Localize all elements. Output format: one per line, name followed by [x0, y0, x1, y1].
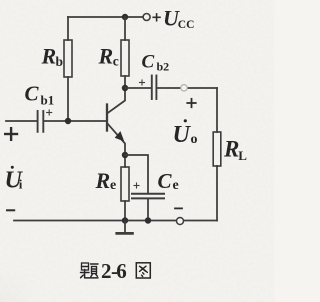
capacitor Cb2 left plate: [151, 76, 153, 100]
transistor Q emitter arrowhead: [115, 131, 125, 141]
svg-text:R: R: [41, 44, 57, 69]
wire Rc bottom to collector node: [124, 76, 126, 88]
capacitor Ce top plate: [132, 193, 164, 195]
label Cb1: [25, 81, 55, 107]
wire Ce bottom to bottom rail: [147, 198, 149, 220]
polarity plus of Cb2: [140, 80, 145, 85]
svg-text:L: L: [238, 148, 247, 163]
wire bottom rail: [14, 220, 217, 222]
svg-text:C: C: [158, 169, 173, 193]
wire Rb branch top: [67, 17, 69, 40]
svg-text:o: o: [191, 132, 198, 147]
capacitor Cb2 right plate: [155, 76, 157, 100]
wire input terminal to Cb1 left plate: [6, 120, 37, 122]
svg-text:C: C: [142, 52, 155, 73]
node junction dot ground node: [122, 217, 128, 223]
resistor Rc body: [121, 40, 129, 76]
wire emitter node to Re: [124, 155, 126, 167]
capacitor Cb1 right plate: [42, 111, 44, 132]
caption hanzi tu (图): [136, 263, 150, 278]
label RL: [223, 137, 247, 164]
wire Rc branch top: [124, 17, 126, 40]
resistor RL body: [213, 132, 221, 166]
output minus sign: [175, 207, 182, 209]
transistor Q base bar: [106, 105, 108, 131]
wire collector to Cb2: [125, 87, 151, 89]
input minus sign: [7, 209, 14, 211]
supply plus sign: [153, 14, 160, 21]
label Ce: [158, 169, 179, 193]
terminal output bottom open circle: [177, 218, 184, 225]
caption hanzi ti (题): [81, 263, 99, 278]
wire Cb2 to right rail corner: [157, 87, 217, 89]
resistor Re body: [121, 167, 129, 201]
wire Rb bottom to base node: [67, 77, 69, 121]
node junction dot collector node: [122, 85, 128, 91]
label Rb: [41, 44, 64, 70]
svg-text:C: C: [25, 81, 40, 105]
node junction dot emitter node: [122, 152, 128, 158]
wire RL bottom to bottom rail: [216, 166, 218, 221]
svg-text:U: U: [173, 122, 192, 148]
capacitor Ce bottom plate: [132, 197, 164, 199]
terminal +Ucc open circle: [143, 14, 150, 21]
node junction dot top of Rc: [122, 14, 128, 20]
svg-text:R: R: [98, 44, 114, 69]
polarity plus of Ce: [134, 183, 139, 188]
wire Re bottom to ground node: [124, 201, 126, 221]
wire emitter node to Ce branch: [125, 155, 148, 193]
svg-text:b1: b1: [41, 93, 55, 108]
label Ucc: [163, 6, 194, 31]
svg-text:e: e: [110, 178, 116, 193]
svg-text:b2: b2: [157, 60, 170, 74]
svg-text:c: c: [113, 54, 119, 69]
transistor Q collector lead: [107, 88, 125, 114]
label Rc: [98, 44, 119, 69]
transistor Q emitter lead: [107, 123, 125, 155]
label Ui with dot: [5, 166, 24, 194]
wire right rail down to RL: [216, 88, 218, 132]
svg-text:R: R: [95, 168, 111, 193]
node junction dot base node: [65, 118, 71, 124]
svg-text:i: i: [19, 177, 23, 192]
svg-text:CC: CC: [178, 19, 195, 31]
output plus sign: [187, 99, 195, 107]
terminal output top open circle: [181, 85, 187, 91]
ground bar: [117, 232, 133, 235]
label Re: [95, 168, 117, 193]
label Uo with dot: [173, 119, 198, 148]
input plus sign: [5, 128, 17, 140]
resistor Rb body: [64, 40, 72, 77]
capacitor Cb1 left plate: [37, 111, 39, 132]
svg-text:b: b: [56, 54, 64, 69]
svg-text:2: 2: [101, 259, 112, 283]
wire top rail to Ucc terminal: [125, 16, 143, 18]
ground stem: [124, 221, 126, 233]
svg-text:e: e: [173, 178, 179, 193]
wire Cb1 to base: [44, 120, 106, 122]
node junction dot Ce bottom: [145, 217, 151, 223]
caption text 2-6: [101, 259, 127, 283]
label Cb2: [142, 52, 170, 74]
svg-text:6: 6: [116, 259, 127, 283]
svg-text:R: R: [223, 137, 239, 162]
wire top rail Rb top to Rc top: [68, 16, 125, 18]
polarity plus of Cb1: [47, 110, 52, 115]
